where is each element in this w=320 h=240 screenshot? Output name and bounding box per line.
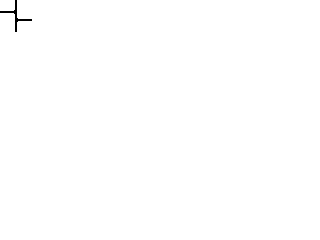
junction: dot at left T-junction of horizontal branch with vertical wire — [14, 10, 17, 14]
wire: vertical net segment — [15, 0, 17, 32]
junction: dot at right T-junction of horizontal branch with vertical wire — [15, 18, 18, 22]
wire: left horizontal branch — [0, 11, 17, 13]
wire: right horizontal branch — [15, 19, 32, 21]
